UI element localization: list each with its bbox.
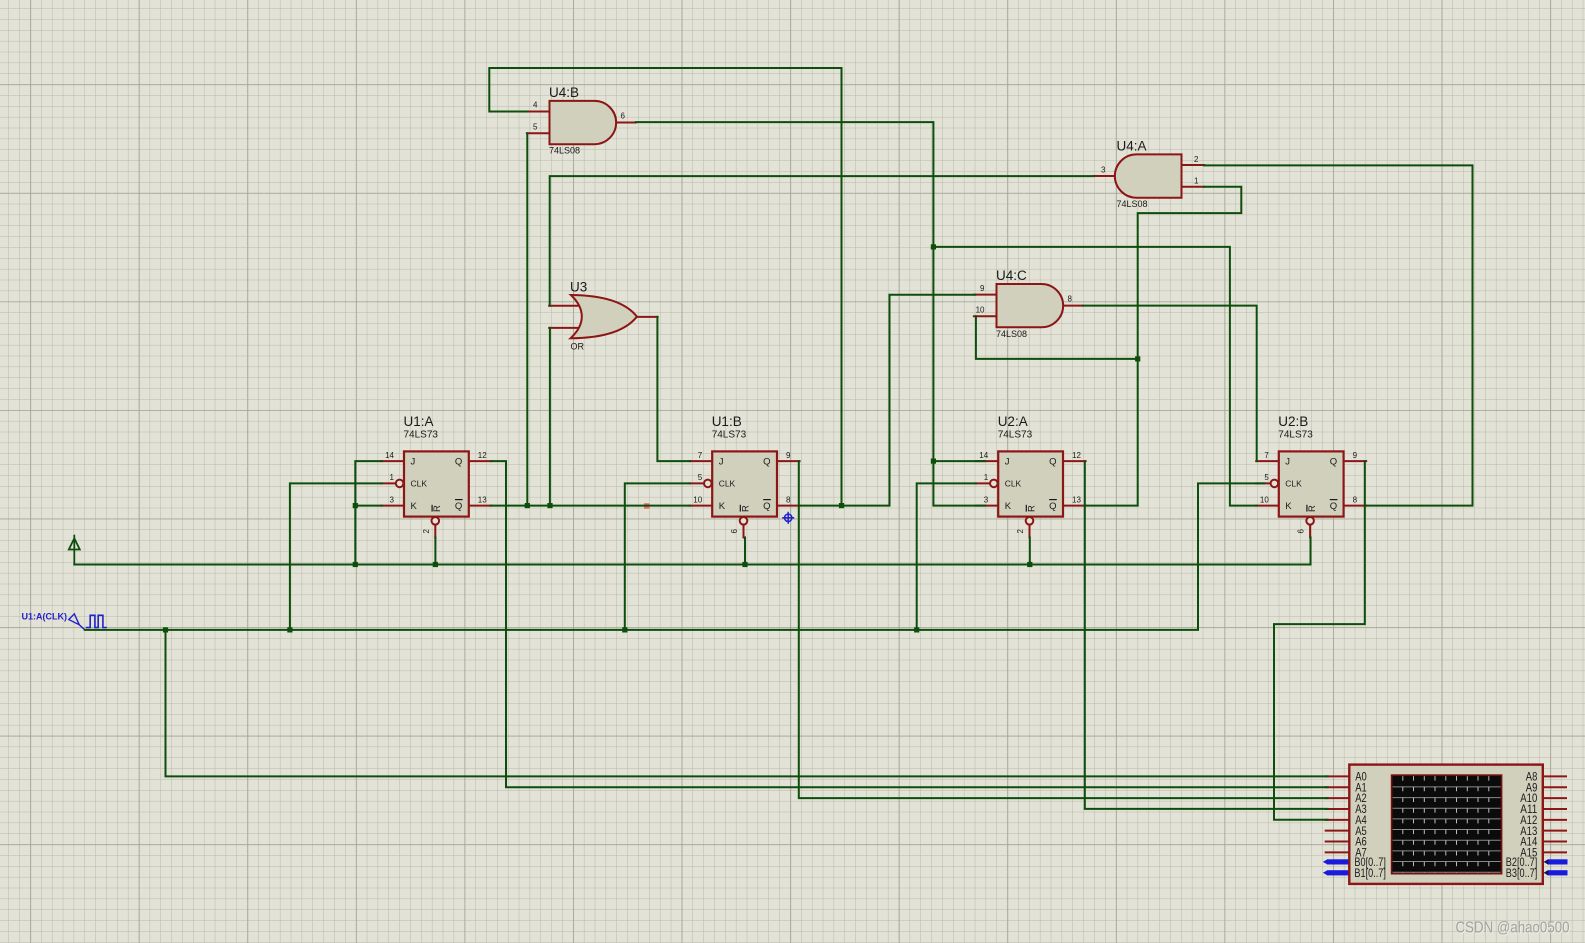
matrix body box (1349, 765, 1543, 884)
svg-text:9: 9 (786, 451, 791, 460)
svg-text:R: R (1026, 505, 1037, 512)
wire U1:B Qbar pin8 to U4:C pin9 (799, 295, 975, 506)
wire U4:A pin2 to U2:B Qbar8 (1204, 165, 1473, 505)
body box (1279, 451, 1344, 516)
junction clock line / A0 branch (163, 627, 168, 632)
junction U4:B.5 / Qbar net (525, 503, 530, 508)
junction clock line / U2:A CLK (914, 627, 919, 632)
pin A12 stub (1542, 819, 1566, 821)
pin 8 output stub (1062, 305, 1083, 307)
pin 14 J stub (381, 460, 404, 462)
pin 3 K stub (381, 505, 404, 507)
gate body (1115, 154, 1182, 197)
junction U2:A R / rail (1027, 562, 1032, 567)
body box (404, 451, 469, 516)
svg-text:R: R (1307, 505, 1318, 512)
wire branch to U2:A J14 (933, 460, 985, 462)
pin A6 stub (1326, 841, 1351, 843)
clock waveform glyph (86, 615, 107, 627)
U3 output stub (637, 316, 658, 318)
red origin marker on K net (644, 503, 650, 509)
pin 10 K stub (1256, 505, 1279, 507)
pin A5 stub (1326, 830, 1351, 832)
wire node to U4:A pin1 (1138, 187, 1242, 359)
wire U4:C out8 to U2:B J7 (1083, 306, 1257, 462)
svg-text:J: J (719, 457, 724, 468)
pin 1 CLK stub (976, 482, 990, 484)
U3 body (571, 295, 637, 338)
pin 3 output stub (1094, 175, 1117, 177)
svg-text:K: K (719, 501, 726, 512)
wire U1:A Q12 to matrix A1 (491, 461, 1327, 787)
svg-text:Q: Q (455, 501, 462, 512)
svg-text:8: 8 (1068, 295, 1073, 304)
clock generator U1:A(CLK) (22, 611, 107, 630)
CLK inversion bubble (990, 480, 998, 488)
svg-text:74LS73: 74LS73 (1278, 430, 1313, 441)
svg-text:7: 7 (1264, 451, 1269, 460)
pin 6 R stub (743, 525, 745, 538)
svg-text:CSDN @ahao0500: CSDN @ahao0500 (1456, 920, 1570, 937)
CLK inversion bubble (396, 480, 404, 488)
pin A7 stub (1326, 851, 1351, 853)
wire U1:A Qbar13 to U1:B K10 (491, 505, 690, 507)
junction U3.in2 / Qbar net (547, 503, 552, 508)
bus pin B2[0..7] stub (1548, 859, 1568, 864)
svg-text:J: J (1005, 457, 1010, 468)
wire U1:B R to rail (744, 537, 746, 564)
jk-flip-flop U1:A 74LS73 (381, 414, 491, 538)
gate body (550, 101, 617, 144)
pin 14 J stub (976, 460, 999, 462)
svg-text:U1:A: U1:A (404, 414, 434, 429)
pin 7 J stub (690, 460, 713, 462)
junction out6 net branch (931, 244, 936, 249)
svg-text:R: R (740, 505, 751, 512)
svg-text:3: 3 (1101, 166, 1106, 175)
bus pin B3[0..7] stub (1548, 870, 1568, 875)
pin A4 stub (1326, 819, 1351, 821)
pin 2 stub (1181, 164, 1205, 166)
pin A0 stub (1326, 775, 1351, 777)
junction tie / rail (353, 562, 358, 567)
wire net U1:B Q to U4:B pin4 (top loop) (489, 68, 841, 112)
blue no-route marker (crosshair) (782, 512, 794, 524)
wire U1:B CLK to clock line (625, 483, 690, 630)
pin 6 R bubble (740, 517, 748, 525)
junction top loop / Qbar net (839, 503, 844, 508)
svg-text:4: 4 (533, 101, 538, 110)
svg-text:13: 13 (478, 495, 487, 504)
svg-text:K: K (411, 501, 418, 512)
wire branch to U1:A K3 (355, 505, 381, 507)
pin A2 stub (1326, 797, 1351, 799)
svg-text:Q: Q (1330, 501, 1337, 512)
and-gate U4:C 74LS08 (974, 268, 1083, 339)
wire U2:A R to rail (1029, 537, 1031, 564)
wire branch from out6 net to U2:B K10 (933, 247, 1256, 506)
pin 6 R stub (1309, 525, 1311, 538)
svg-text:U4:B: U4:B (549, 85, 579, 100)
wire U1:A R to rail (434, 537, 436, 564)
pin 9 Q stub (1344, 460, 1367, 462)
svg-text:J: J (1285, 457, 1290, 468)
junction U1:A R / rail (433, 562, 438, 567)
wire U2:A Qbar13 up to node (1085, 359, 1138, 506)
jk-flip-flop U2:A 74LS73 (976, 414, 1086, 538)
svg-text:U1:A(CLK): U1:A(CLK) (22, 611, 68, 621)
wire U1:A CLK to clock line (290, 483, 382, 630)
wire clock line from generator to U2:B CLK (85, 483, 1265, 630)
svg-text:U2:B: U2:B (1278, 414, 1308, 429)
pin 1 CLK stub (381, 482, 395, 484)
svg-text:R: R (432, 505, 443, 512)
matrix screen (1392, 775, 1502, 874)
pin 12 Q stub (469, 460, 492, 462)
svg-text:J: J (411, 457, 416, 468)
svg-text:1: 1 (390, 473, 395, 482)
svg-text:5: 5 (698, 473, 703, 482)
svg-text:74LS73: 74LS73 (404, 430, 439, 441)
junction U1:A K tie (353, 503, 358, 508)
svg-text:U4:C: U4:C (996, 268, 1027, 283)
pin A14 stub (1542, 841, 1566, 843)
pin 2 R stub (434, 525, 436, 538)
junction U1:B R / rail (742, 562, 747, 567)
svg-text:74LS08: 74LS08 (1117, 199, 1148, 209)
svg-text:6: 6 (621, 112, 626, 121)
svg-text:2: 2 (422, 529, 431, 534)
pin 2 R bubble (432, 517, 440, 525)
svg-text:Q: Q (455, 457, 462, 468)
pin A10 stub (1542, 797, 1566, 799)
svg-text:6: 6 (1297, 529, 1306, 534)
svg-text:Q: Q (763, 457, 770, 468)
svg-text:10: 10 (693, 495, 702, 504)
svg-text:9: 9 (980, 284, 985, 293)
svg-text:8: 8 (786, 495, 791, 504)
pin A3 stub (1326, 808, 1351, 810)
wire U4:B pin5 vertical to Qbar net of U1:A (526, 133, 528, 505)
generator flag triangle (69, 614, 85, 630)
pin A1 stub (1326, 786, 1351, 788)
pin 10 stub (974, 315, 998, 317)
svg-text:1: 1 (984, 473, 989, 482)
wire U2:B Q9 to matrix A4 (1274, 461, 1365, 820)
svg-text:B1[0..7]: B1[0..7] (1354, 866, 1386, 880)
wire vertical from top loop down to Qbar net (841, 68, 843, 506)
bus pin B1[0..7] stub (1327, 870, 1350, 875)
pin 4 stub (527, 111, 551, 113)
svg-text:CLK: CLK (411, 479, 428, 489)
junction out6 net / U2:A J (931, 459, 936, 464)
dot-matrix display component (1323, 765, 1568, 884)
svg-text:3: 3 (390, 495, 395, 504)
body box (998, 451, 1063, 516)
svg-text:Q: Q (1049, 457, 1056, 468)
svg-text:Q: Q (763, 501, 770, 512)
svg-text:U4:A: U4:A (1117, 139, 1147, 154)
svg-text:13: 13 (1072, 495, 1081, 504)
wire node to U4:C pin10 (976, 316, 1138, 359)
pin A8 stub (1542, 775, 1566, 777)
svg-text:14: 14 (385, 451, 394, 460)
svg-text:74LS08: 74LS08 (549, 146, 580, 156)
svg-text:12: 12 (1072, 451, 1081, 460)
pin A13 stub (1542, 830, 1566, 832)
wire U4:B out6 down to U2:A K3 (636, 122, 985, 506)
pin 5 CLK stub (1256, 482, 1270, 484)
svg-text:B3[0..7]: B3[0..7] (1506, 866, 1538, 880)
pin 5 stub (527, 132, 551, 134)
svg-text:74LS73: 74LS73 (998, 430, 1033, 441)
jk-flip-flop U2:B 74LS73 (1256, 414, 1366, 538)
power terminal (logic high arrow) (69, 536, 80, 565)
svg-text:3: 3 (984, 495, 989, 504)
svg-text:K: K (1285, 501, 1292, 512)
screen vertical dashed grid lines (1403, 776, 1489, 873)
svg-text:10: 10 (976, 306, 985, 315)
svg-text:2: 2 (1194, 155, 1199, 164)
pin 6 R bubble (1306, 517, 1314, 525)
junction U2:A Qbar node (1135, 356, 1140, 361)
svg-text:6: 6 (730, 529, 739, 534)
wire U4:A out3 to U3 input1 (550, 176, 1094, 306)
pin 3 K stub (976, 505, 999, 507)
wire U3 output to U1:B J7 (657, 317, 690, 461)
and-gate U4:B 74LS08 (527, 85, 636, 156)
wire U2:A CLK to clock line (917, 483, 976, 630)
pin 13 Qbar stub (1063, 505, 1086, 507)
svg-text:1: 1 (1194, 177, 1199, 186)
svg-text:14: 14 (979, 451, 988, 460)
junction clock line / U1:B CLK (622, 627, 627, 632)
svg-text:CLK: CLK (719, 479, 736, 489)
svg-text:74LS08: 74LS08 (996, 329, 1027, 339)
pin 13 Qbar stub (469, 505, 492, 507)
pin 12 Q stub (1063, 460, 1086, 462)
pin A15 stub (1542, 851, 1566, 853)
svg-text:12: 12 (478, 451, 487, 460)
pin A11 stub (1542, 808, 1566, 810)
wire U1:B Q9 to matrix A2 (799, 461, 1328, 798)
svg-text:U1:B: U1:B (712, 414, 742, 429)
pin 9 Q stub (777, 460, 800, 462)
wire clock line branch to matrix A0 (166, 630, 1328, 777)
svg-text:7: 7 (698, 451, 703, 460)
pin 1 stub (1181, 186, 1205, 188)
pin 9 stub (974, 294, 998, 296)
junction clock line / U1:A CLK (287, 627, 292, 632)
svg-text:5: 5 (533, 122, 538, 131)
svg-text:10: 10 (1260, 495, 1269, 504)
or-gate U3 (549, 280, 657, 352)
wire U1:A J14 K3 tie to logic-high rail (355, 461, 381, 564)
svg-text:Q: Q (1049, 501, 1056, 512)
pin 8 Qbar stub (777, 505, 800, 507)
bus pin B0[0..7] stub (1327, 859, 1350, 864)
pin 10 K stub (690, 505, 713, 507)
U3 input stub 1 (549, 305, 581, 307)
svg-text:74LS73: 74LS73 (712, 430, 747, 441)
CLK inversion bubble (1271, 480, 1279, 488)
and-gate U4:A 74LS08 (mirrored) (1094, 139, 1205, 210)
svg-text:Q: Q (1330, 457, 1337, 468)
svg-text:9: 9 (1353, 451, 1358, 460)
screen horizontal grid lines (1393, 787, 1501, 872)
wire U3 input2 to Qbar net (549, 328, 551, 506)
svg-text:CLK: CLK (1285, 479, 1302, 489)
svg-text:2: 2 (1016, 529, 1025, 534)
pin 2 R stub (1029, 525, 1031, 538)
wire U2:A Q12 to matrix A3 (1085, 461, 1328, 809)
svg-text:U3: U3 (570, 280, 587, 295)
pin 8 Qbar stub (1344, 505, 1367, 507)
svg-text:K: K (1005, 501, 1012, 512)
CLK inversion bubble (704, 480, 712, 488)
jk-flip-flop U1:B 74LS73 (690, 414, 800, 538)
pin 6 output stub (615, 122, 636, 124)
svg-text:8: 8 (1353, 495, 1358, 504)
svg-text:CLK: CLK (1005, 479, 1022, 489)
pin 7 J stub (1256, 460, 1279, 462)
gate body (997, 284, 1064, 327)
svg-text:OR: OR (571, 341, 585, 351)
pin 5 CLK stub (690, 482, 704, 484)
svg-text:5: 5 (1264, 473, 1269, 482)
pin 2 R bubble (1026, 517, 1034, 525)
svg-text:U2:A: U2:A (998, 414, 1028, 429)
wire logic-high rail (reset line) from power terminal to U2:B R (74, 537, 1310, 564)
U3 input stub 2 (549, 327, 578, 329)
body box (712, 451, 777, 516)
pin A9 stub (1542, 786, 1566, 788)
